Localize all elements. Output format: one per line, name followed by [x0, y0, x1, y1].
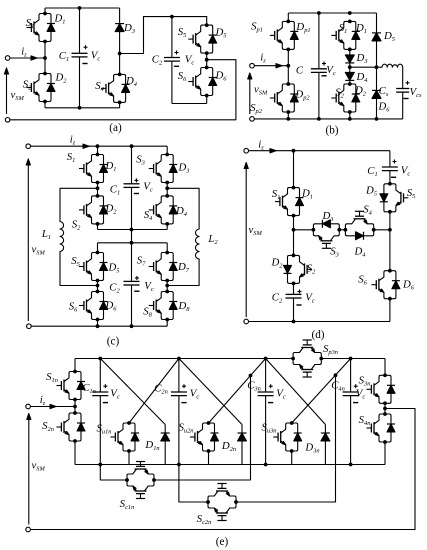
wire top rail (b) [288, 11, 376, 21]
diode D3 [115, 8, 135, 55]
diode D6 label [214, 70, 227, 83]
caption (c) [107, 336, 120, 348]
wire S1n to node [74, 400, 76, 407]
diode Dp2 label [294, 89, 310, 102]
diode D5 label (c) [107, 262, 119, 275]
node S5-S6 [96, 281, 100, 292]
transistor S3 (c) [136, 146, 177, 184]
wire Sp1 to node [287, 49, 289, 65]
diode D2 label [354, 85, 367, 98]
transistor S2 (c) [72, 194, 108, 232]
wire Sc2n right to tap [236, 375, 336, 502]
transistor S4 [95, 54, 129, 105]
wire S6 to bottom rail [389, 299, 391, 322]
wire between elements [339, 229, 345, 231]
transistor S2 [23, 72, 55, 104]
transistor S5 [178, 17, 217, 55]
capacitor C1 (d) [367, 151, 410, 184]
panel (b) input terminal i_z [250, 52, 282, 69]
bottom terminal (c) [27, 324, 32, 329]
svg-text:(d): (d) [311, 329, 324, 341]
bottom terminal (e) [26, 527, 31, 532]
diode D1 label [355, 22, 367, 35]
transistor Su1n [97, 421, 140, 453]
voltage arrow v_SM (d) [244, 163, 262, 318]
transistor S2n [42, 407, 85, 443]
transistor S1n [46, 370, 85, 402]
wire Sc1n left to C1n bottom [100, 465, 127, 481]
transistor S4n [359, 412, 395, 444]
diode D1n [144, 425, 169, 465]
diode Dp1 label [295, 21, 310, 34]
bottom terminal (b) [250, 117, 255, 122]
caption (d) [311, 329, 324, 341]
link C1 bottom to C2 top [130, 230, 134, 245]
diode D8 label (c) [177, 300, 190, 313]
element Sc2n [197, 484, 238, 527]
diode D2 label (d) [270, 257, 283, 270]
voltage arrow v_SM (b) [248, 73, 268, 114]
diagonal C3n to Su2n with tap [209, 359, 266, 424]
wire element to right column [374, 228, 392, 232]
wire bottom rail (d) [249, 320, 390, 324]
diode D6 label (c) [104, 300, 117, 313]
wire output tap (e) [30, 409, 415, 530]
caption (e) [216, 536, 229, 548]
capacitor C2 (c) [109, 243, 154, 326]
diode D6 label (d) [402, 279, 415, 292]
svg-text:(c): (c) [107, 336, 120, 348]
wire S1 emitter to node [44, 42, 46, 59]
diagonal C2n to Su1n [129, 359, 179, 424]
capacitor C2 (d) [272, 283, 315, 321]
element Sc1n [120, 462, 156, 512]
diode D1 label [53, 13, 65, 26]
node S3n-S4n [383, 403, 387, 414]
wire top rail (c) [31, 144, 168, 148]
diode D1 label (d) [301, 188, 313, 201]
inductor L snubber [382, 64, 403, 67]
node S3-S4 to L2 [165, 183, 199, 230]
svg-text:(b): (b) [325, 125, 338, 137]
diode D4 [345, 67, 368, 84]
capacitor C [296, 13, 336, 119]
diagonal C2n to D2n [179, 359, 242, 425]
wire bottom wire (e) [75, 463, 385, 467]
bottom terminal (d) [244, 319, 249, 324]
capacitor C1 [59, 8, 101, 108]
capacitor C4n [331, 359, 365, 465]
transistor Su3n [262, 421, 302, 453]
diagonal C1n to D1n [100, 359, 165, 425]
wire top rail (d) [249, 149, 390, 153]
wire to D3-S3 element [294, 229, 314, 231]
inductor L2 [195, 229, 218, 259]
wire D3-D4 node to snubber [350, 65, 382, 69]
capacitor C2 [152, 17, 195, 104]
transistor S1 [26, 12, 55, 44]
wire Sc1n right to tap [154, 376, 251, 481]
diode D2n [221, 425, 247, 465]
transistor Sp1 [251, 20, 298, 52]
wire S5 to mid node right [389, 212, 391, 271]
diode D3 [345, 48, 367, 70]
wire node to S2 collector [44, 58, 46, 74]
capacitor C3n [247, 359, 286, 465]
wire i_z to node (e) [30, 405, 77, 409]
panel (d) input terminal i_z [244, 139, 276, 154]
svg-text:(a): (a) [109, 122, 122, 134]
output terminal [5, 118, 10, 123]
diode D5 label [214, 27, 226, 40]
wire L2 to S7-S8 node [167, 259, 199, 286]
transistor S6 [178, 53, 217, 97]
caption (b) [325, 125, 338, 137]
wire Sp2 to bottom rail [287, 112, 289, 119]
capacitor C1 (c) [110, 146, 153, 229]
wire Su1n to bottom wire [128, 451, 130, 465]
voltage arrow v_SM (c) [26, 159, 45, 321]
voltage arrow v_SM [4, 68, 24, 114]
diode D2 label (c) [104, 203, 117, 216]
wire S4 to bottom [119, 102, 121, 107]
diode D6 [372, 67, 390, 119]
diode D4 label (c) [175, 205, 188, 218]
node S1-S2 to L1 [60, 183, 99, 222]
diode D7 label (c) [177, 261, 190, 274]
diagonal C4n to Su3n with tap [292, 359, 351, 424]
transistor Sp2 [250, 66, 298, 116]
wire bottom rail (b) [254, 117, 402, 121]
wire Su2n to bottom wire [208, 451, 210, 465]
transistor S2 [331, 82, 360, 114]
diode D4 label [125, 75, 138, 88]
element S4/D4 [344, 211, 376, 240]
panel (e) input terminal i_z [26, 394, 56, 409]
wire i_z input to node [10, 56, 47, 60]
voltage arrow v_SM (e) [27, 414, 46, 525]
wire D3-S4 node to C2 top rail [120, 15, 207, 54]
second rail (c) [98, 242, 168, 244]
diagonal C3n to D3n [266, 359, 326, 425]
element D3/S3 [312, 220, 342, 249]
diode D3 label (c) [177, 162, 189, 175]
transistor S8 (c) [143, 290, 177, 322]
panel (a) input terminal i_z [5, 46, 37, 61]
wire bottom of S2 to S4 [45, 102, 120, 110]
transistor S7 (c) [137, 243, 178, 283]
wire top rail [45, 6, 120, 13]
transistor S3n [359, 359, 395, 406]
caption (a) [109, 122, 122, 134]
transistor S4 (c) [144, 194, 178, 226]
wire output tap to bottom rail [10, 60, 236, 120]
node S7-S8 [165, 281, 169, 292]
wire bottom rail (c) [31, 320, 167, 329]
mid node left (d) [292, 216, 296, 256]
wire L1 to S5-S6 node [60, 252, 98, 286]
transistor Su2n [179, 421, 219, 453]
wire S2 to bottom rail [349, 112, 351, 119]
wire S2n to bottom wire [74, 441, 76, 465]
inductor L1 [41, 222, 64, 252]
diode D3n [304, 425, 330, 465]
diode D4 label (d) [353, 246, 366, 259]
transistor S1 [331, 20, 360, 52]
transistor S1 (d) [272, 151, 304, 218]
svg-text:(e): (e) [216, 536, 229, 548]
wire S4 to mid rail [166, 224, 168, 230]
transistor S2 (d) mirrored [284, 254, 317, 286]
transistor S5 (d) mirrored [380, 182, 415, 214]
panel (c) input terminal i_z [26, 134, 89, 149]
svg-text:C: C [296, 65, 304, 77]
wire Su3n to bottom wire [291, 451, 293, 465]
transistor S5 (c) [71, 243, 107, 283]
transistor S6 (c) [69, 290, 108, 322]
capacitor C2n [154, 359, 199, 465]
transistor S6 (d) [358, 269, 400, 301]
diode D1 label (c) [104, 160, 116, 173]
wire top rail (e) [75, 357, 293, 372]
capacitor C1n [82, 359, 120, 465]
diode D5 [372, 13, 395, 67]
wire Sc2n left to C2n bottom [179, 465, 208, 503]
wire S4n to bottom wire [384, 442, 386, 465]
wire S6 to C2 bottom [172, 96, 207, 104]
wire S2 to mid rail [98, 224, 168, 232]
element Sp3n [291, 340, 338, 377]
transistor S3 label (d) [330, 246, 339, 259]
capacitor Cs [379, 67, 422, 119]
transistor S1 (c) [67, 146, 108, 184]
diode D2 label [54, 72, 67, 85]
wire i_z to node [254, 64, 290, 68]
transistor S4 label (d) [363, 204, 372, 217]
diode D5 label (d) [365, 185, 377, 198]
wire top rail right (e) [321, 357, 385, 361]
diode D3 label (d) [321, 210, 333, 223]
